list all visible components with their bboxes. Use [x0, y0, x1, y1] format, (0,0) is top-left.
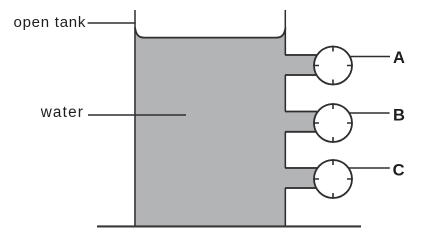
tap A circle	[314, 47, 352, 85]
tank right wall upper segment	[284, 10, 286, 55]
tank right wall lower segment	[284, 188, 286, 227]
leader line open tank	[88, 22, 136, 24]
pipe A edges	[285, 55, 317, 75]
tap B ticks	[313, 103, 353, 143]
ground line	[97, 225, 361, 227]
pipe A fill	[285, 54, 317, 76]
svg-text:B: B	[393, 107, 405, 125]
svg-text:A: A	[393, 49, 405, 67]
pipe C edges	[285, 168, 317, 188]
svg-text:open tank: open tank	[14, 14, 87, 31]
tap C circle	[314, 160, 352, 198]
pipe B edges	[285, 112, 317, 132]
tank left wall	[134, 10, 136, 227]
outlet line C	[333, 167, 390, 169]
outlet line A	[333, 56, 390, 58]
tank water fill	[134, 28, 286, 228]
pipe C fill	[285, 167, 317, 189]
outlet line B	[333, 112, 390, 114]
leader line water	[88, 114, 186, 116]
tap A ticks	[313, 46, 353, 86]
water surface with meniscus	[135, 28, 286, 38]
tank right wall between pipes B-C	[284, 132, 286, 168]
pipe B fill	[285, 111, 317, 133]
svg-text:water: water	[40, 104, 84, 121]
tank right wall between pipes A-B	[284, 75, 286, 112]
tap C ticks	[313, 159, 353, 199]
svg-text:C: C	[393, 161, 405, 179]
tap B circle	[314, 104, 352, 142]
